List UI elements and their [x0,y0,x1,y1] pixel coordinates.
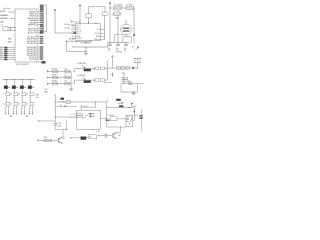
junction loop a [134,57,137,60]
svg-text:C9 100n: C9 100n [126,5,132,7]
diode D1 body [65,70,70,72]
resistor R11 body [128,83,131,85]
net label RD0/PSP0 [40,38,43,39]
net label RB0/INT [40,11,43,12]
relay RL1 body [77,110,101,129]
svg-text:K1: K1 [60,105,62,107]
wire R8 to D [30,96,32,103]
wire right Q5 BC548 [105,68,108,70]
svg-text:RC1/CCP: RC1/CCP [28,33,37,35]
wire OP rail [106,102,108,127]
U1 pin stub MCLR [8,11,15,13]
wire J1 gnd stub [44,32,46,34]
wire LED1 down [6,105,8,107]
junction U2 bl corner [66,41,67,42]
wire R7 to D [22,96,24,103]
wire reg out link [115,33,123,35]
svg-text:25v: 25v [108,50,111,52]
wire N bottom run [55,129,66,131]
svg-text:D7: D7 [122,73,124,75]
U1 pin stub RA3 [7,53,15,55]
ground below U2 [84,52,88,55]
U1 pin stub RD3/PSP3 [37,46,40,48]
crystal X1 body [3,27,8,31]
J1 pin tick 7 [42,14,44,16]
U1 pin stub RD2/PSP2 [37,42,40,44]
net arrow into U2 pin [74,32,77,34]
second box at Q5 BC548 [100,67,104,70]
arrow out a OC4 [29,113,30,115]
svg-text:25v: 25v [124,50,127,52]
wire drop OC2 [14,80,16,86]
wire power gnd bus [107,42,129,44]
wire BZ1 bottom lead [125,35,127,37]
svg-text:R3 330: R3 330 [52,75,58,77]
U1 pin stub RD0/PSP0 [37,38,40,40]
junction bus gnd [86,47,87,48]
U1 pin stub RA5 [7,57,15,59]
wire L bus [121,83,144,85]
wire top right drop [109,5,111,8]
wire left drop Q6 BC548 [73,80,75,83]
capacitor C10 plate a [108,43,112,45]
wire VCC drop mid [54,12,56,33]
wire BZ1 loop top [123,36,131,38]
svg-text:C3 1u: C3 1u [71,24,76,26]
wire K right rail [107,61,109,81]
wire out a OC3 [21,107,23,113]
wire mid rail x118 down [117,16,119,43]
wire MCLR pullup vert [3,8,5,11]
wire top right bus [110,7,134,9]
svg-text:Q6 BC548: Q6 BC548 [77,75,85,77]
wire LED2 down [14,105,16,107]
J1 pin tick 4 [42,10,44,12]
junction loop b [139,57,142,60]
wire long bus y47 [72,46,108,48]
svg-text:T1OUT: T1OUT [94,33,100,35]
wire gnd drop [85,47,87,52]
wire C4 to rail [104,14,106,17]
wire left rail x110 down [109,8,111,43]
resistor R4 330 body [52,83,57,85]
wire Q8 collector bend [116,131,120,133]
wire base row Q6 BC548 [74,79,96,81]
net label RB5/AN [40,22,43,23]
wire below RL1 b [86,137,88,139]
arrow out b OC4 [32,113,33,115]
arrow out b OC1 [8,113,9,115]
capacitor C14 plate a [53,122,57,124]
svg-text:RA2: RA2 [0,21,4,24]
junction cap bus x126 [126,42,127,43]
net label RD7/PSP7 [40,54,43,55]
svg-text:RC7/RX: RC7/RX [29,59,37,61]
svg-text:R13: R13 [44,137,47,139]
relay RL2 body [126,115,133,126]
net label RD3/PSP3 [40,46,43,47]
svg-text:drv: drv [36,97,39,99]
svg-text:R14 1k: R14 1k [109,115,115,117]
wire out b OC4 [31,106,33,113]
capacitor C10 lead top [109,43,111,44]
wire loop stub b [139,58,141,62]
U1 pin stub RC1/CCP [37,32,40,34]
U1 pin stub RC7/RX [37,58,40,60]
net label RB4/AN [40,20,43,21]
svg-text:D10: D10 [97,131,100,133]
junction N a [55,102,56,103]
wire driver bus [3,79,36,81]
wire below RL1 a [72,137,81,139]
power VCC arrow mid [54,9,56,12]
U1 pin stub RB7/PGD [37,28,40,30]
svg-text:GND: GND [40,33,45,35]
power VCC arrow P [131,103,133,106]
U1 pin stub RC0/T1O [37,30,40,32]
resistor R13 body [44,139,52,141]
BZ1 plus mark upper [123,28,130,29]
U1 pin stub RB6/PGC [37,24,40,26]
wire out b OC2 [15,106,17,113]
transistor Q7 body [59,137,63,143]
svg-text:C8: C8 [131,47,133,49]
J1 pin tick 13 [42,23,44,25]
RL2 stub right [133,119,135,121]
svg-text:RA1/AN1: RA1/AN1 [0,17,8,20]
node OSC1 junction [9,26,12,29]
junction bus OC4 [29,78,32,81]
junction N b [55,117,56,118]
RL2 switch arm [129,117,133,125]
plus mark right mid [111,55,114,58]
wire U2 bottom run [66,40,88,42]
wire P top [107,106,135,108]
wire U2 top loop horiz [89,6,106,8]
svg-text:Q5 BC548: Q5 BC548 [77,63,85,65]
input arrow Q7 [37,140,39,142]
svg-text:C14: C14 [58,123,61,125]
wire loop bottom [133,62,141,64]
svg-text:U1 PIC16F877: U1 PIC16F877 [16,64,29,66]
wire out b OC1 [7,106,9,113]
U2 pin stub C1+ 1 [72,25,76,27]
J1 pin tick 16 [42,28,44,30]
wire Q8 base [101,135,113,137]
wire reset stub [71,40,73,42]
RL1 contact a [89,113,91,115]
U1 net flag RA3 [4,53,7,55]
net label filler y5.2 [40,5,43,6]
junction RL1 feed [95,102,96,103]
U1 pin stub RB5/AN [37,22,40,24]
U1 net flag RE1 [4,49,7,51]
net label RC7/RX [40,58,43,59]
U2 pin stub C1- 3 [72,29,76,31]
svg-text:C13 104: C13 104 [116,51,123,53]
arrow out a OC3 [21,113,22,115]
wire N horiz y106.8 [55,106,76,108]
arrow out a OC2 [13,113,14,115]
label RELAY1 [84,69,91,72]
wire VCC drop above U2 [79,8,81,24]
U1 pin stub RC2/CCP [37,36,40,38]
power VCC arrow above U2 [79,5,81,8]
J1 pin tick 8 [42,16,44,18]
U1 pin stub RC6/TX [37,56,40,58]
svg-text:MCLR: MCLR [0,11,6,13]
svg-text:R1OUT: R1OUT [76,38,82,40]
regulator U4 body [114,12,121,16]
wire right rail x134 [133,8,135,35]
svg-text:RA0/AN0: RA0/AN0 [0,14,8,17]
wire RL1 top feed horiz [82,106,96,108]
resistor R6 body [14,93,18,96]
net label RD5/PSP5 [40,50,43,51]
svg-text:GND15: GND15 [94,39,100,41]
diode D1 body [114,6,122,9]
diode D4 body [122,67,125,70]
wire x134 tail [133,35,135,45]
J1 pin tick 1 [42,5,44,7]
resistor R10 body [117,67,121,70]
net label filler y8.2 [40,8,43,9]
svg-text:K2: K2 [90,137,92,139]
svg-text:100u: 100u [58,125,62,127]
wire X1 caps join [10,27,12,30]
wire RL2 bottom [107,126,126,128]
wire U2 right rail [104,16,106,40]
wire drop OC3 [22,80,24,86]
wire VCC to U2 [55,32,76,34]
resistor R3 330 body [52,76,57,78]
capacitor C9 body [126,6,134,9]
opto U5 body b [122,80,128,82]
wire row R2 330 [49,70,72,72]
junction U2 top b [88,22,89,23]
wire C14 down [54,125,56,130]
junction N c [66,129,67,130]
component K2 body [89,135,97,139]
wire L vert top [111,72,113,77]
RL2 contact right a [139,115,143,117]
wire left loop bottom [67,51,86,53]
net label OSC [42,61,46,64]
U1 pin stub RD4/PSP4 [37,48,40,50]
wire L loop left [120,84,122,92]
transistor Q6 BC548 arrow [82,77,85,80]
wire RL1 feed from y102 [95,102,97,107]
U1 pin stub RB0/INT [37,11,40,13]
U1 pin stub RB1/T1 [37,13,40,15]
net label RB3/PGM [40,17,43,18]
svg-text:R11: R11 [128,81,131,83]
U2 pin stub GND15 [101,39,105,41]
junction U2 top a [80,22,81,23]
svg-text:D1: D1 [65,68,67,70]
svg-text:RA4: RA4 [8,37,12,40]
svg-text:RB6/PGC: RB6/PGC [28,25,37,27]
net label RC2/CCP [40,36,43,37]
wire BZ1 loop left [122,37,124,43]
wire N vert main [54,94,56,123]
wire RL1 to rail [101,117,107,119]
node left Q5 BC548 [74,71,75,72]
wire BZ1 top lead [125,20,127,24]
wire Q7 collector [62,130,64,139]
net label RD1/PSP1 [40,40,43,41]
wire OC1 to R [6,89,8,93]
buzzer BZ1 body [121,24,132,35]
RL2 contact right b [139,117,143,119]
capacitor C10 plate b [108,45,112,47]
wire L left horiz [104,82,112,84]
wire drop OC1 [6,80,8,86]
wire U2 top loop right drop [104,7,106,12]
wire left net at U2 top [70,21,80,23]
svg-text:X1: X1 [1,25,3,27]
net label RD6/PSP6 [40,52,43,53]
resistor R7 body [22,93,26,96]
wire Q8 collector up [120,127,122,132]
wire right mid vert [111,58,113,68]
arrow out b OC2 [16,113,17,115]
junction U2 top c [96,23,97,24]
U1 pin stub RE0 [7,47,15,49]
J1 pin tick 11 [42,20,44,22]
svg-text:C7 22p: C7 22p [64,28,70,30]
wire out a OC4 [29,107,31,113]
svg-text:10u: 10u [124,48,127,50]
wire chain [106,67,138,69]
wire L loop bottom [121,91,137,93]
transistor Q5 BC548 arrow [82,65,85,68]
wire out b OC3 [23,106,25,113]
U2 pin stub T1OUT [101,33,105,35]
wire loop top [133,57,141,59]
dark label below RL1 [81,137,87,140]
capacitor C11 plate b [116,45,120,47]
wire out a OC1 [5,107,7,113]
RL1 coil a [77,113,82,115]
wire LED4 down [30,105,32,107]
svg-text:Q8: Q8 [118,135,120,137]
junction P vcc [129,107,130,108]
optocoupler OC3 body [20,86,24,89]
net label filler y9.7 [40,9,43,10]
J1 pin tick 10 [42,19,44,21]
net label RD4/PSP4 [40,48,43,49]
junction bus OC1 [5,78,8,81]
J1 pin tick 6 [42,13,44,15]
input arrow Q8 [98,135,100,136]
junction chain right [137,68,138,69]
power flag arrow NE [135,47,138,50]
capacitor C12 plate a [124,43,128,45]
wire drop OC4 [30,80,32,86]
resistor R8 body [30,93,34,96]
RL2 coil bars [127,117,129,122]
U1 pin stub VSS [7,59,15,61]
junction L gnd [133,92,134,93]
arrow out b OC3 [24,113,25,115]
wire row R3 330 [49,77,72,79]
U1 pin stub RD5/PSP5 [37,50,40,52]
svg-text:D8 LED: D8 LED [118,103,125,105]
U1 pin stub RD1/PSP1 [37,40,40,42]
transistor Q8 body [113,132,117,138]
wire C3 down to U2 [88,18,90,24]
U2 pin stub R1IN [101,36,105,38]
U1 pin stub RA4 [7,55,15,57]
svg-text:7805: 7805 [115,18,119,20]
diode D2 body [65,76,70,78]
resistor R2 330 body [52,70,57,72]
wire N right vert [66,121,68,130]
input arrow below RL1 [70,137,72,139]
U2 pin stub V+ 2 [72,27,76,29]
U1 pin stub RB3/PGM [37,17,40,19]
U1 pin stub RB4/AN [37,19,40,21]
svg-text:C2- 5: C2- 5 [76,33,80,35]
input arrow R4 330 [47,83,49,85]
junction L a [112,74,113,75]
IC U1 PIC16F877 body [15,9,37,62]
net label RB7/PGD [40,28,43,29]
wire OC2 to R [14,89,16,93]
diode D5 body [126,67,129,70]
BZ1 plus mark lower [123,30,130,31]
RL1 pin stub b [73,116,77,118]
capacitor C14 plate b [53,124,57,126]
wire row R4 330 [49,83,72,85]
U2 pin stub T1IN [72,36,76,38]
connector J1 body [44,5,47,32]
arrow out a OC1 [5,113,6,115]
wire reg out [112,13,122,15]
capacitor C11 lead top [117,43,119,44]
net label filler y26.3 [40,26,43,27]
junction cap bus x110 [110,42,111,43]
U1 net flag RA5 [4,57,7,59]
ground L [131,92,135,95]
wire loop stub a [134,58,136,62]
U1 pin stub RB2/T2 [37,15,40,17]
wire reg out drop [114,34,116,42]
power VCC arrow top right [109,2,111,5]
junction OP b [106,118,107,119]
resistor R14 body [111,117,118,121]
U1 pin stub RE2 [7,51,15,53]
wire R14 to RL2 [117,118,126,120]
net label RB2/T2 [40,15,43,16]
wire N horiz y102 [55,101,107,103]
power flag right [133,34,135,36]
wire right Q6 BC548 [105,79,108,81]
second box at Q6 BC548 [100,79,104,82]
svg-text:V- 6: V- 6 [97,29,100,31]
U1 net flag RE2 [4,51,7,53]
base resistor marks Q8 [105,134,108,137]
junction OP a [106,107,107,108]
wire U1 bottom net [37,61,44,63]
svg-text:R1 10k: R1 10k [69,39,75,41]
capacitor C11 plate a [116,43,120,45]
net label RB6/PGC [40,24,43,25]
resistor R5 body [6,93,10,96]
resistor R12 body [66,101,70,104]
svg-text:R2 330: R2 330 [52,68,58,70]
